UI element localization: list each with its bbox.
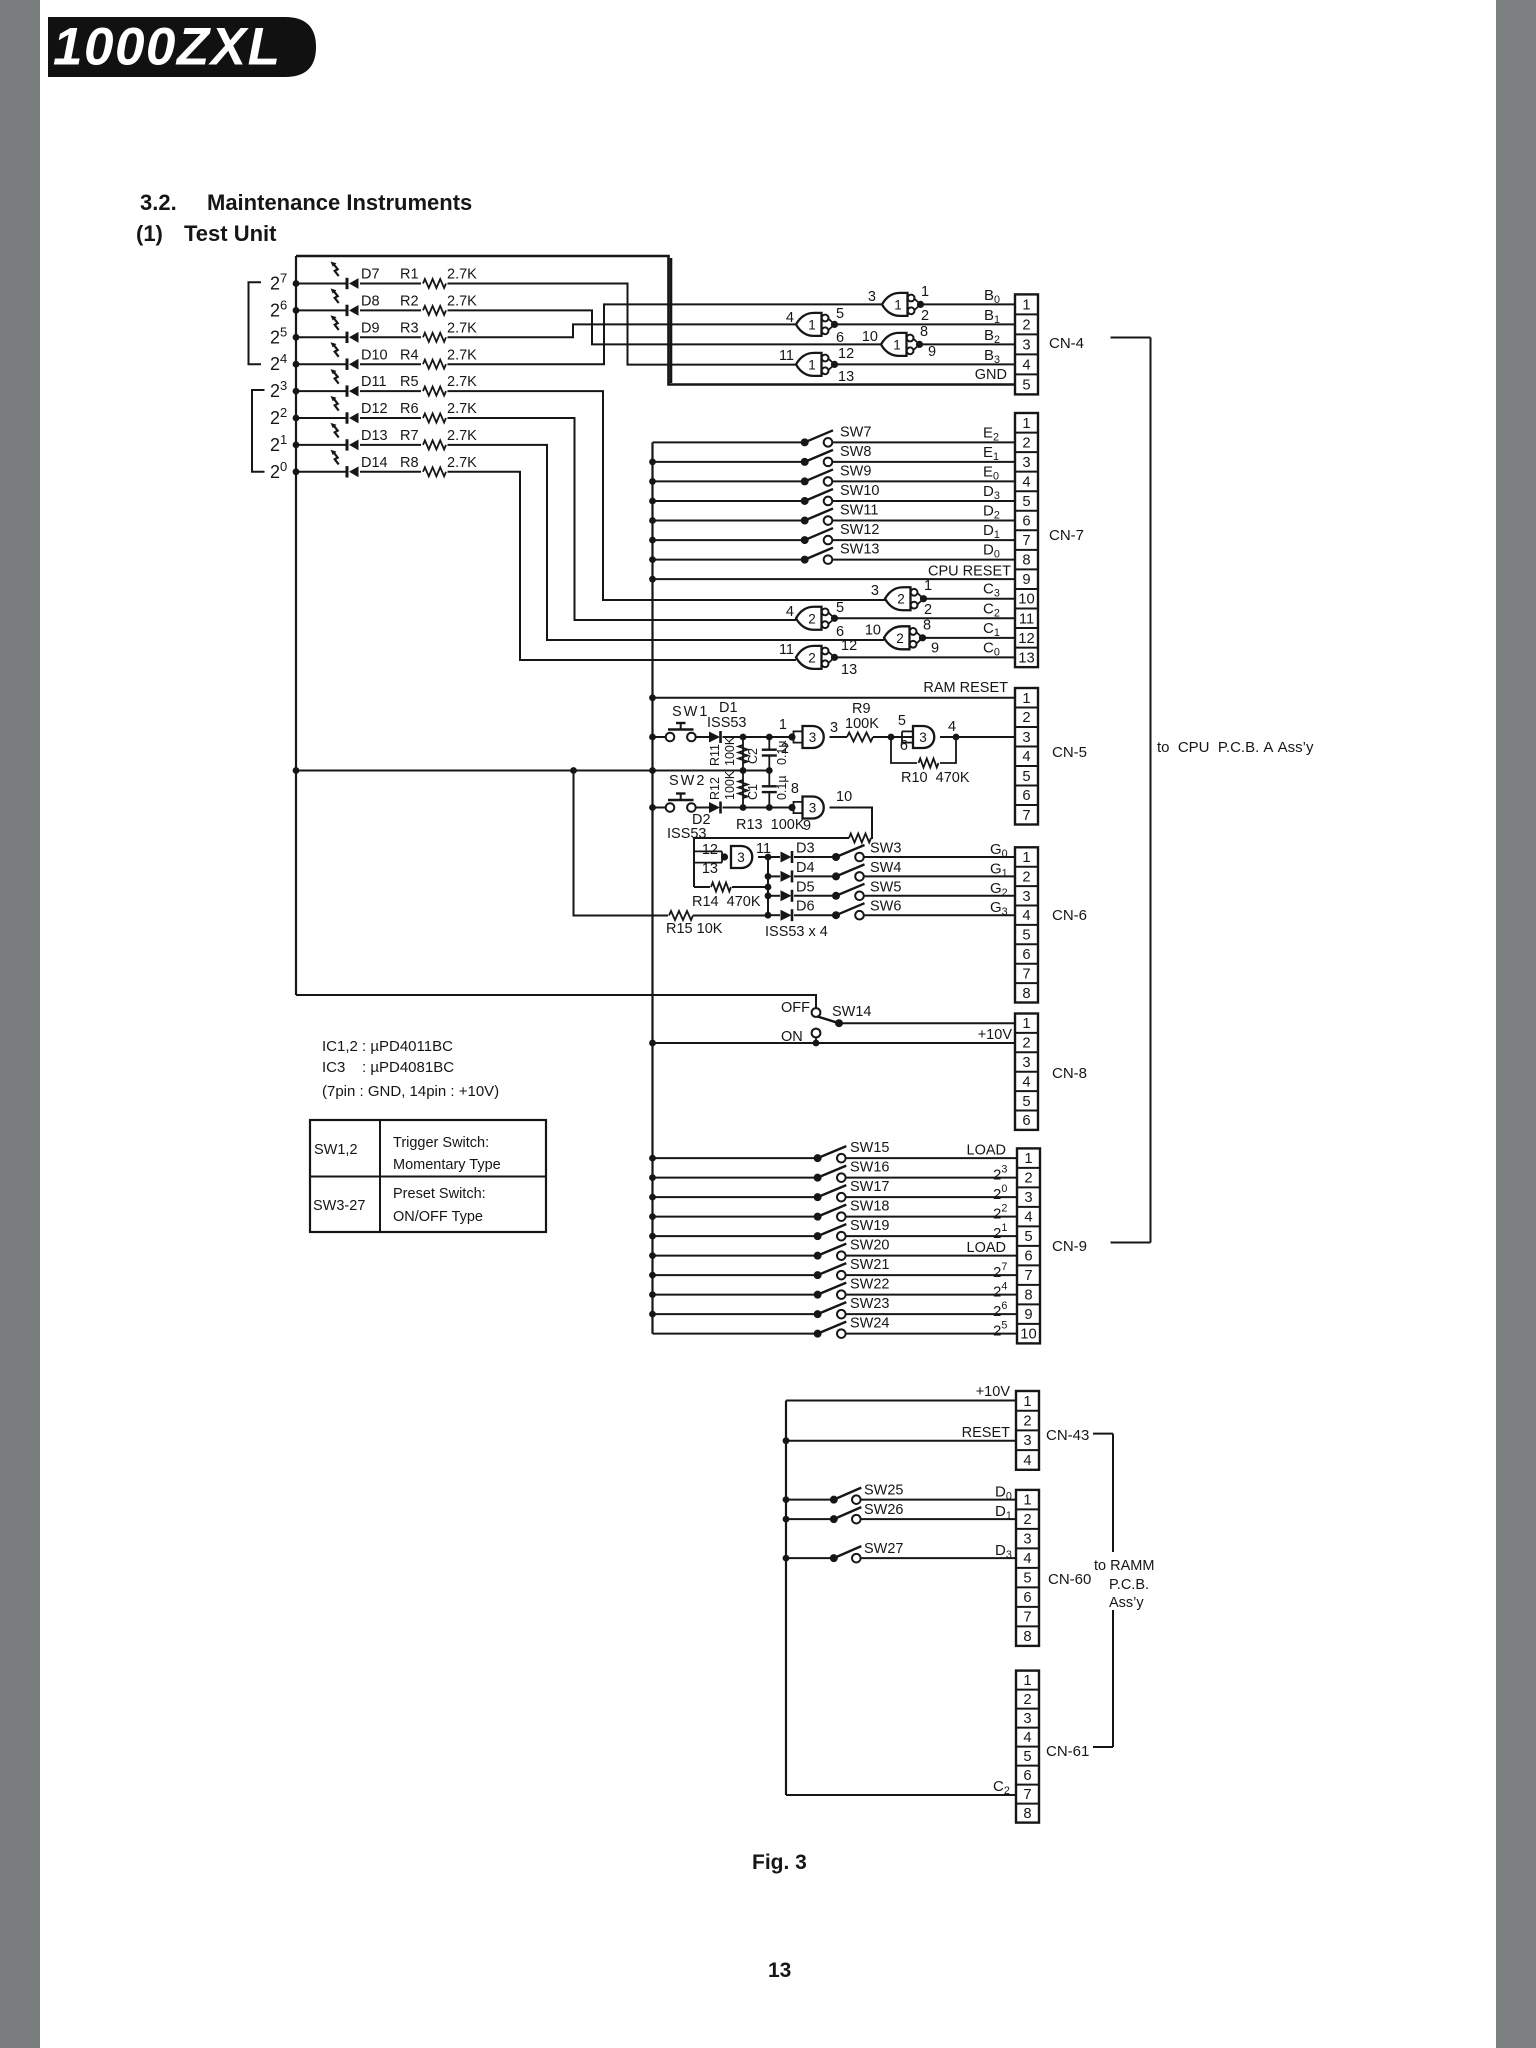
svg-text:R1: R1 [400, 267, 419, 283]
diode D1 [709, 731, 721, 743]
svg-text:3: 3 [1022, 889, 1030, 905]
switch SW25 [830, 1488, 862, 1504]
wire bus to SW25 [786, 1499, 834, 1501]
svg-text:2: 2 [1023, 1414, 1031, 1430]
svg-text:D14: D14 [361, 455, 388, 471]
svg-text:2: 2 [897, 592, 905, 607]
switch SW22 [814, 1283, 847, 1299]
svg-text:13: 13 [1018, 650, 1034, 666]
wire bus to SW27 [786, 1557, 834, 1559]
svg-text:to RAMM: to RAMM [1094, 1558, 1154, 1574]
svg-text:3: 3 [1024, 1190, 1032, 1206]
svg-text:C1: C1 [746, 784, 760, 800]
switch SW6 [832, 903, 865, 919]
pin stub 12 IC3d [694, 850, 722, 852]
svg-text:R15 10K: R15 10K [666, 921, 723, 937]
wire to R15 [574, 771, 669, 916]
wire bus to SW18 [653, 1216, 818, 1218]
svg-text:7: 7 [1022, 966, 1030, 982]
svg-text:9: 9 [931, 640, 939, 656]
junction bus SW26 [783, 1516, 790, 1523]
svg-text:2.7K: 2.7K [447, 267, 477, 283]
svg-text:1: 1 [894, 297, 902, 312]
switch SW11 [801, 509, 833, 525]
svg-text:D3: D3 [796, 841, 815, 857]
svg-text:SW13: SW13 [840, 542, 880, 558]
svg-text:4: 4 [1022, 1074, 1030, 1090]
svg-text:100K: 100K [723, 736, 737, 766]
svg-text:1: 1 [808, 317, 816, 332]
svg-text:SW18: SW18 [850, 1199, 890, 1215]
svg-text:R7: R7 [400, 428, 419, 444]
gate IC2a [885, 587, 927, 610]
junction bus SW15 [649, 1155, 656, 1162]
wire D12 cathode [296, 417, 347, 419]
wire R9 to IC3b [873, 736, 913, 738]
resistor R15 [669, 911, 693, 920]
junction bus SW13 [649, 556, 656, 563]
svg-text:D10: D10 [361, 347, 388, 363]
svg-text:CN-5: CN-5 [1052, 744, 1087, 761]
svg-text:0.1µ: 0.1µ [775, 775, 789, 800]
junction bus return [293, 767, 300, 774]
wire bus to SW17 [653, 1196, 818, 1198]
wire D13 to R7 [360, 444, 421, 446]
junction bus SW22 [649, 1291, 656, 1298]
svg-text:12: 12 [1018, 631, 1034, 647]
svg-text:3: 3 [1023, 1433, 1031, 1449]
wire IC3d out [758, 856, 768, 858]
wire D1 to gate IC3a [723, 736, 792, 738]
wire SW17 to CN-9 [846, 1196, 1017, 1198]
svg-text:CN-6: CN-6 [1052, 907, 1087, 924]
wire OFF feed [296, 995, 816, 1008]
svg-text:4: 4 [1023, 1730, 1031, 1746]
wire R10 left leg [891, 737, 917, 763]
switch SW21 [814, 1263, 847, 1279]
svg-text:7: 7 [1023, 1610, 1031, 1626]
switch SW3 [832, 845, 865, 861]
gate IC3a [788, 726, 823, 748]
wire SW16 to CN-9 [846, 1177, 1017, 1179]
wire SW14 to CN-8 pin1 [839, 1022, 1015, 1024]
resistor R10 [919, 759, 939, 768]
wire SW common bus [651, 442, 653, 1333]
svg-text:SW6: SW6 [870, 899, 901, 915]
junction bus SW9 [649, 478, 656, 485]
svg-text:4: 4 [1023, 1453, 1031, 1469]
switch SW10 [801, 489, 833, 505]
svg-text:Fig. 3: Fig. 3 [752, 1851, 807, 1874]
svg-text:2: 2 [924, 602, 932, 618]
wire D4 to SW4 [794, 875, 836, 877]
junction bus SW17 [649, 1194, 656, 1201]
svg-text:10: 10 [865, 622, 881, 638]
gate IC1c [881, 333, 923, 356]
gate IC1a [882, 293, 924, 316]
wire top loop GND return to CN-4 pin5 [296, 256, 1015, 385]
junction R15 branch [570, 767, 577, 774]
junction bus SW1 [649, 734, 656, 741]
svg-text:(1): (1) [136, 221, 163, 246]
wire IC3c feedback left leg [694, 838, 849, 852]
table switch types [310, 1120, 546, 1232]
junction SW bus return [649, 767, 656, 774]
wire RAMM bus [785, 1401, 787, 1796]
wire bus to SW26 [786, 1518, 834, 1520]
wire C2 top stub [768, 737, 770, 750]
svg-text:Maintenance Instruments: Maintenance Instruments [207, 190, 472, 215]
switch SW8 [801, 450, 833, 466]
junction bus SW11 [649, 517, 656, 524]
junction R14 [765, 884, 772, 891]
svg-text:5: 5 [898, 713, 906, 729]
svg-text:1: 1 [1022, 850, 1030, 866]
diode D2 [709, 802, 721, 814]
switch SW20 [814, 1244, 847, 1260]
svg-text:2: 2 [1024, 1171, 1032, 1187]
svg-text:LOAD: LOAD [967, 1240, 1007, 1256]
svg-text:SW14: SW14 [832, 1004, 872, 1020]
switch SW5 [832, 884, 865, 900]
resistor R12 [739, 780, 748, 798]
svg-text:10: 10 [1018, 592, 1034, 608]
svg-text:2: 2 [1022, 1036, 1030, 1052]
wire bus to SW16 [653, 1177, 818, 1179]
svg-text:3.2.: 3.2. [140, 190, 177, 215]
wire D7 cathode [296, 283, 347, 285]
svg-text:6: 6 [1022, 788, 1030, 804]
svg-text:2.7K: 2.7K [447, 347, 477, 363]
wire D9 cathode [296, 336, 347, 338]
connector CN-9 [1017, 1148, 1040, 1343]
svg-text:2: 2 [1023, 1512, 1031, 1528]
tie IC3d [721, 851, 723, 862]
svg-text:100K: 100K [723, 770, 737, 800]
svg-text:10: 10 [862, 329, 878, 345]
resistor R1 [423, 279, 446, 288]
switch SW2 [666, 794, 696, 812]
svg-text:4: 4 [1022, 749, 1030, 765]
LED D10 [331, 342, 359, 370]
svg-text:ON: ON [781, 1029, 803, 1045]
switch SW27 [830, 1546, 862, 1562]
wire SW18 to CN-9 [846, 1216, 1017, 1218]
LED D11 [331, 369, 359, 397]
svg-text:CN-4: CN-4 [1049, 335, 1084, 352]
svg-text:3: 3 [1022, 1055, 1030, 1071]
wire D7 row to gate output [448, 284, 797, 365]
svg-text:8: 8 [1022, 986, 1030, 1002]
resistor R6 [423, 414, 446, 423]
junction C2-C1 [766, 767, 773, 774]
gate IC3c [788, 797, 823, 819]
svg-text:7: 7 [1022, 808, 1030, 824]
svg-text:8: 8 [923, 617, 931, 633]
svg-text:CPU RESET: CPU RESET [928, 564, 1011, 580]
svg-text:SW5: SW5 [870, 879, 901, 895]
LED D14 [331, 450, 359, 478]
wire SW1 to D1 [696, 736, 709, 738]
pin stub 5 IC3b [902, 730, 913, 732]
wire B2 to CN-4 pin3 [920, 343, 1016, 345]
svg-text:D1: D1 [719, 700, 738, 716]
wire loop double stroke [670, 258, 673, 383]
capacitor C2 [762, 750, 777, 756]
wire C0 to CN-7 pin13 [835, 656, 1016, 658]
switch SW12 [801, 528, 833, 544]
wire B0 to CN-4 pin1 [921, 303, 1016, 305]
svg-text:3: 3 [1023, 1532, 1031, 1548]
wire D13 row to gate output [448, 445, 885, 640]
svg-text:Test Unit: Test Unit [184, 221, 277, 246]
wire C1 to CN-7 pin12 [923, 637, 1016, 639]
resistor R8 [423, 467, 446, 476]
wire RAM RESET [653, 697, 1016, 699]
wire diode bus [767, 857, 769, 916]
svg-text:+10V: +10V [978, 1027, 1013, 1043]
wire SW6 to CN-6 [864, 914, 1015, 916]
svg-text:11: 11 [779, 348, 794, 364]
wire CN-9 to trunk [1111, 1242, 1151, 1244]
junction D5 [765, 892, 772, 899]
connector CN-6 [1015, 847, 1038, 1002]
wire CN-43 to RAMM trunk [1093, 1433, 1113, 1435]
wire D12 to R6 [360, 417, 421, 419]
junction LED row D7 [293, 280, 300, 287]
junction RESET [783, 1437, 790, 1444]
junction R11 top [740, 734, 747, 741]
wire SW21 to CN-9 [846, 1274, 1017, 1276]
wire C3 to CN-7 pin10 [924, 598, 1016, 600]
wire D9 to R3 [360, 336, 421, 338]
svg-text:2: 2 [808, 611, 816, 626]
switch SW19 [814, 1224, 847, 1240]
connector CN-60 [1016, 1490, 1039, 1646]
wire D3 to SW3 [794, 856, 836, 858]
wire bus to SW2 [653, 807, 666, 809]
svg-text:CN-8: CN-8 [1052, 1065, 1087, 1082]
svg-text:13: 13 [768, 1959, 791, 1982]
resistor R3 [423, 333, 446, 342]
junction D6 [765, 912, 772, 919]
svg-text:6: 6 [1023, 1590, 1031, 1606]
wire SW19 to CN-9 [846, 1235, 1017, 1237]
resistor R2 [423, 306, 446, 315]
svg-text:6: 6 [1022, 947, 1030, 963]
svg-text:SW10: SW10 [840, 483, 880, 499]
svg-text:SW22: SW22 [850, 1277, 890, 1293]
wire bus to SW11 [653, 520, 805, 522]
wire bus to SW15 [653, 1157, 818, 1159]
svg-text:ISS53: ISS53 [707, 715, 747, 731]
svg-text:SW11: SW11 [840, 503, 878, 519]
svg-text:1: 1 [1022, 691, 1030, 707]
svg-text:SW27: SW27 [864, 1541, 904, 1557]
resistor R9 [847, 733, 873, 742]
svg-text:10: 10 [1020, 1327, 1036, 1343]
svg-text:ON/OFF Type: ON/OFF Type [393, 1209, 483, 1225]
svg-text:1: 1 [779, 717, 787, 733]
wire SW24 to CN-9 [846, 1333, 1017, 1335]
svg-text:2: 2 [1022, 317, 1030, 333]
junction bus CPU RESET [649, 576, 656, 583]
resistor R5 [423, 387, 446, 396]
svg-text:3: 3 [919, 730, 927, 745]
wire D10 to R4 [360, 363, 421, 365]
svg-text:1: 1 [1023, 1673, 1031, 1689]
note to RAMM PCB [1090, 1552, 1160, 1611]
svg-text:SW2: SW2 [669, 773, 706, 789]
wire CPU RESET [653, 578, 1016, 580]
svg-text:3: 3 [809, 730, 817, 745]
svg-text:OFF: OFF [781, 1000, 810, 1016]
svg-text:R12: R12 [708, 777, 722, 800]
svg-text:D9: D9 [361, 320, 380, 336]
left scan margin bar [0, 0, 40, 2048]
diode D4 [781, 870, 793, 882]
junction R11-R12 [740, 767, 747, 774]
svg-text:SW26: SW26 [864, 1502, 904, 1518]
wire SW23 to CN-9 [846, 1313, 1017, 1315]
diode D6 [781, 909, 793, 921]
wire R14 to diode bus [732, 886, 768, 888]
gate IC1b [796, 313, 838, 336]
resistor R4 [423, 360, 446, 369]
junction C2 top [766, 734, 773, 741]
svg-text:2.7K: 2.7K [447, 374, 477, 390]
junction bus SW19 [649, 1233, 656, 1240]
wire D8 row to gate output [448, 310, 882, 344]
svg-text:2: 2 [896, 631, 904, 646]
svg-text:100K: 100K [845, 716, 879, 732]
svg-text:1: 1 [1024, 1151, 1032, 1167]
junction LED row D14 [293, 468, 300, 475]
switch SW14 lever [818, 1017, 840, 1024]
svg-text:2.7K: 2.7K [447, 428, 477, 444]
junction bus SW20 [649, 1252, 656, 1259]
wire SW4 to CN-6 [864, 875, 1015, 877]
contact SW14 OFF [812, 1008, 821, 1017]
wire common return [296, 770, 769, 772]
tie IC3b [901, 731, 903, 742]
svg-text:7: 7 [1023, 1787, 1031, 1803]
connector CN-8 [1015, 1014, 1038, 1130]
wire SW20 to CN-9 [846, 1255, 1017, 1257]
wire D11 row to gate output [448, 391, 886, 600]
switch SW7 [801, 430, 833, 446]
wire D14 cathode [296, 471, 347, 473]
diode D3 [781, 851, 793, 863]
svg-text:CN-60: CN-60 [1048, 1571, 1091, 1588]
junction bus SW2 [649, 804, 656, 811]
wire IC3b out to CN-5 pin3 [940, 736, 1015, 738]
junction R10 tap [888, 734, 895, 741]
svg-text:3: 3 [1022, 455, 1030, 471]
junction bus RAM RESET [649, 694, 656, 701]
junction bus SW12 [649, 537, 656, 544]
svg-text:4: 4 [786, 310, 794, 326]
junction LED row D9 [293, 334, 300, 341]
wire C2 to CN-7 pin11 [835, 617, 1016, 619]
junction tied inputs IC3d [721, 853, 728, 860]
junction bus SW18 [649, 1213, 656, 1220]
wire SW25 to CN-60 [861, 1499, 1016, 1501]
wire CN-61 to RAMM trunk [1093, 1746, 1113, 1748]
wire SW5 to CN-6 [864, 895, 1015, 897]
svg-text:13: 13 [702, 861, 718, 877]
wire bus to SW12 [653, 539, 805, 541]
svg-text:11: 11 [1019, 611, 1034, 627]
svg-text:ISS53: ISS53 [667, 826, 707, 842]
wire +10V to CN-8 pin2 [653, 1042, 1016, 1044]
svg-text:1: 1 [1023, 1493, 1031, 1509]
svg-text:(7pin : GND, 14pin : +10V): (7pin : GND, 14pin : +10V) [322, 1083, 499, 1100]
svg-text:6: 6 [1022, 1113, 1030, 1129]
gate IC3d [731, 846, 752, 868]
svg-text:D6: D6 [796, 899, 815, 915]
junction R10 out [953, 734, 960, 741]
wire R10 right leg [940, 737, 956, 763]
svg-text:Trigger Switch:: Trigger Switch: [393, 1135, 489, 1151]
LED D8 [331, 288, 359, 316]
wire LED cathode bus [295, 256, 297, 995]
svg-text:SW16: SW16 [850, 1160, 890, 1176]
svg-text:8: 8 [1023, 1806, 1031, 1822]
connector CN-61 [1016, 1671, 1039, 1823]
contact SW14 ON [812, 1029, 821, 1038]
bracket group 2^7-2^4 [249, 282, 262, 364]
wire SW2 to D2 [696, 807, 709, 809]
wire RESET [786, 1440, 1016, 1442]
svg-text:SW12: SW12 [840, 522, 880, 538]
svg-text:8: 8 [1023, 1629, 1031, 1645]
svg-text:D13: D13 [361, 428, 388, 444]
svg-text:13: 13 [841, 662, 857, 678]
wire bus to D4 [768, 875, 780, 877]
svg-text:4: 4 [1022, 908, 1030, 924]
wire bus to SW23 [653, 1313, 818, 1315]
svg-text:8: 8 [791, 781, 799, 797]
junction LED row D11 [293, 388, 300, 395]
svg-text:3: 3 [871, 583, 879, 599]
svg-text:3: 3 [1023, 1711, 1031, 1727]
wire bus to D5 [768, 895, 780, 897]
svg-text:GND: GND [975, 367, 1007, 383]
junction LED row D13 [293, 442, 300, 449]
svg-text:4: 4 [786, 604, 794, 620]
junction ON [813, 1040, 820, 1047]
svg-text:RAM RESET: RAM RESET [923, 680, 1008, 696]
svg-text:9: 9 [928, 344, 936, 360]
resistor R13 [849, 834, 871, 843]
svg-text:2.7K: 2.7K [447, 320, 477, 336]
wire bus to SW10 [653, 500, 805, 502]
wire D14 to R8 [360, 471, 421, 473]
svg-text:R9: R9 [852, 701, 871, 717]
svg-text:8: 8 [1022, 553, 1030, 569]
wire D14 row to gate output [448, 472, 797, 660]
svg-text:P.C.B.: P.C.B. [1109, 1577, 1149, 1593]
wire D8 cathode [296, 309, 347, 311]
svg-text:D8: D8 [361, 294, 380, 310]
bracket group 2^3-2^0 [252, 390, 265, 472]
logo 1000ZXL [48, 17, 316, 77]
svg-text:RESET: RESET [962, 1425, 1010, 1441]
svg-text:R6: R6 [400, 401, 419, 417]
svg-text:R3: R3 [400, 320, 419, 336]
wire C1 bottom stub [768, 792, 770, 807]
